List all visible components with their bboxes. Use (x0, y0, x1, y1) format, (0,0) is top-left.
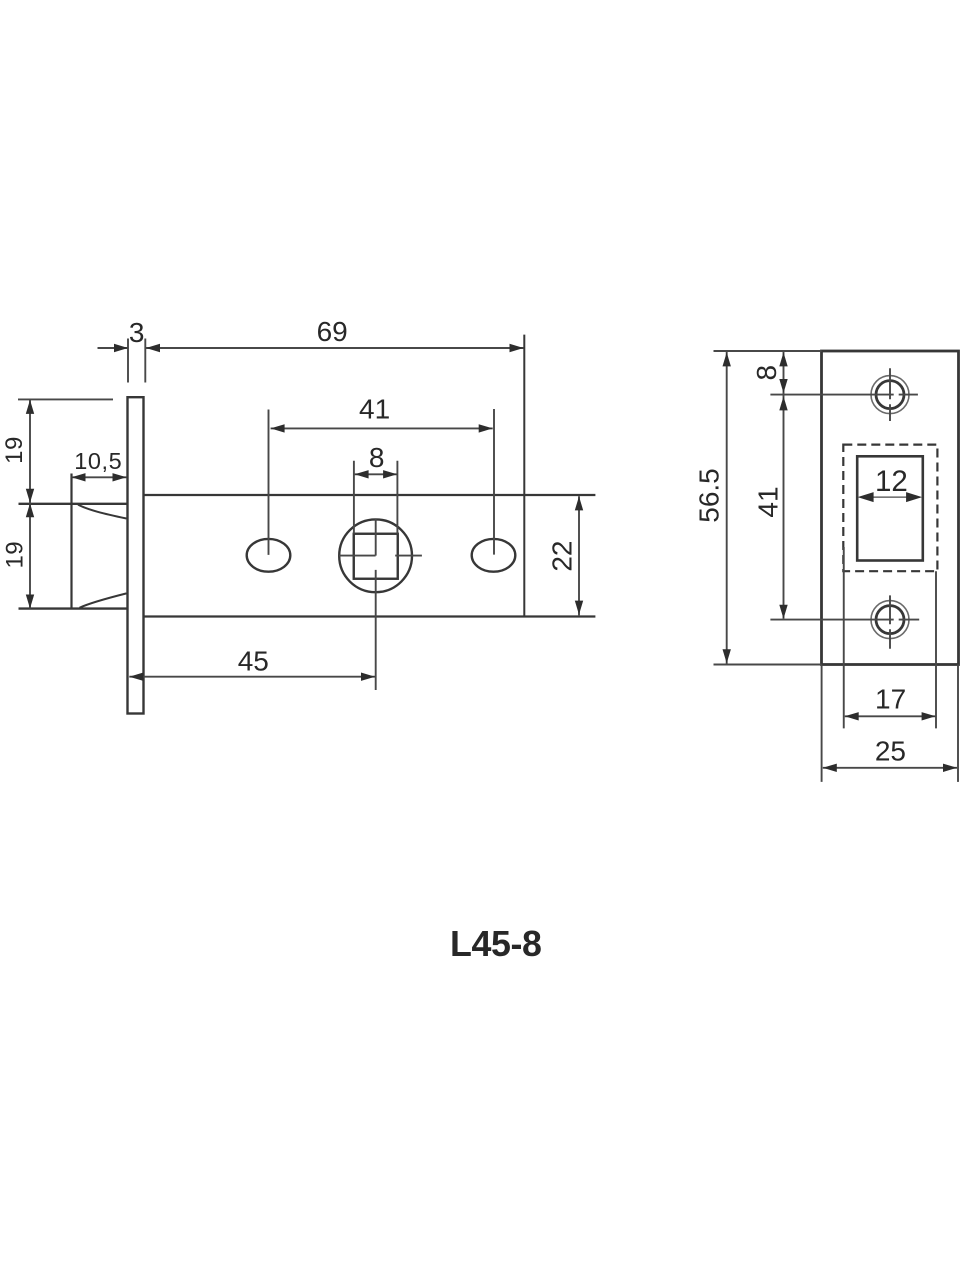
svg-text:8: 8 (751, 365, 782, 381)
svg-text:19: 19 (2, 541, 29, 569)
svg-text:17: 17 (875, 684, 906, 715)
svg-text:56.5: 56.5 (694, 468, 725, 523)
svg-text:12: 12 (875, 465, 908, 498)
svg-text:45: 45 (238, 646, 269, 677)
svg-text:41: 41 (359, 394, 390, 425)
svg-text:22: 22 (546, 541, 577, 572)
svg-text:L45-8: L45-8 (450, 924, 542, 964)
svg-text:69: 69 (317, 316, 348, 347)
svg-text:10,5: 10,5 (74, 448, 122, 474)
svg-text:19: 19 (1, 436, 28, 464)
svg-text:41: 41 (753, 486, 784, 517)
svg-text:25: 25 (875, 736, 906, 767)
svg-text:8: 8 (369, 442, 385, 473)
svg-text:3: 3 (129, 317, 145, 348)
